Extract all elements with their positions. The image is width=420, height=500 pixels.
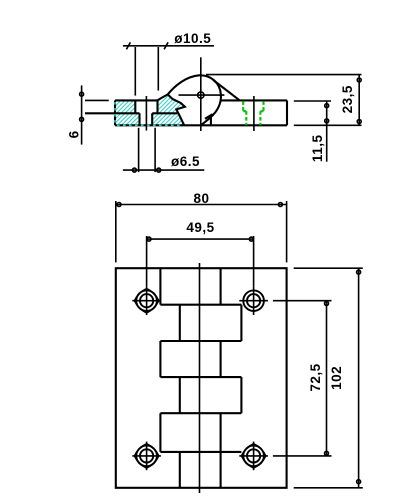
svg-text:80: 80 [193, 191, 209, 206]
svg-text:72,5: 72,5 [308, 363, 323, 391]
svg-text:6: 6 [66, 130, 81, 138]
svg-text:49,5: 49,5 [186, 220, 214, 235]
svg-text:102: 102 [329, 366, 344, 390]
svg-text:ø10.5: ø10.5 [174, 31, 211, 46]
svg-text:ø6.5: ø6.5 [171, 154, 200, 169]
svg-text:23,5: 23,5 [340, 85, 355, 113]
svg-text:11,5: 11,5 [310, 135, 325, 163]
